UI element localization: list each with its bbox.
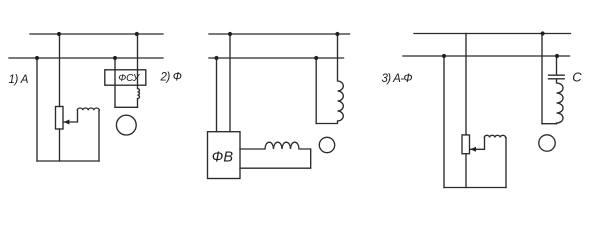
svg-text:1) А: 1) А: [9, 74, 29, 86]
svg-text:3) А-Ф: 3) А-Ф: [382, 73, 413, 85]
svg-text:С: С: [572, 70, 582, 85]
svg-text:ФВ: ФВ: [212, 150, 234, 166]
svg-text:ФСУ: ФСУ: [118, 73, 141, 84]
svg-text:2) Ф: 2) Ф: [160, 72, 182, 84]
